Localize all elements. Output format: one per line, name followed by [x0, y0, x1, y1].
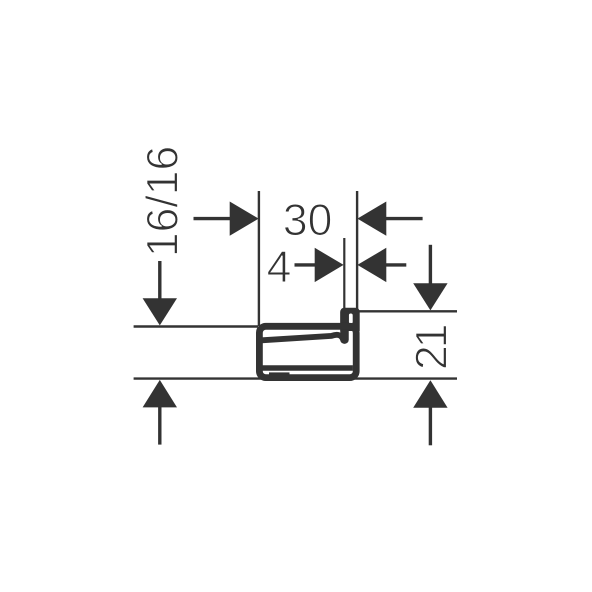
body outline (rounded rectangle, side view)	[259, 326, 356, 377]
hook cap (tip of hook, top right of body)	[340, 308, 359, 331]
hook slot (white notch in cap)	[349, 314, 353, 324]
dim 4 left arrow	[295, 263, 318, 266]
dim 21 down arrow	[429, 245, 432, 285]
dim 30 right arrow	[384, 217, 423, 220]
reference line right upper	[359, 310, 458, 312]
dim 30 left arrow	[194, 217, 233, 220]
hook left leg / curl bar	[340, 312, 349, 340]
extension line V2 (right of 30 dim)	[356, 191, 358, 310]
inner bottom line of body	[262, 365, 353, 371]
extension line V3 (left of 4 dim)	[343, 238, 345, 310]
dim 16/16 down arrow	[158, 261, 161, 300]
svg-text:4: 4	[267, 243, 292, 292]
small ledge above bottom edge	[269, 372, 290, 376]
extension line V1 (left of 30 dim)	[258, 191, 260, 326]
svg-text:21: 21	[408, 325, 457, 370]
dim 21 up arrow	[429, 405, 432, 445]
wall reference line bottom full width	[134, 377, 457, 379]
inner lip line with curl (top inside of body)	[262, 335, 344, 340]
wall reference line left upper	[134, 325, 258, 328]
svg-text:16/16: 16/16	[139, 146, 188, 257]
dim 4 right arrow	[384, 263, 406, 266]
svg-text:30: 30	[283, 196, 333, 245]
dim 16/16 up arrow	[158, 405, 161, 445]
